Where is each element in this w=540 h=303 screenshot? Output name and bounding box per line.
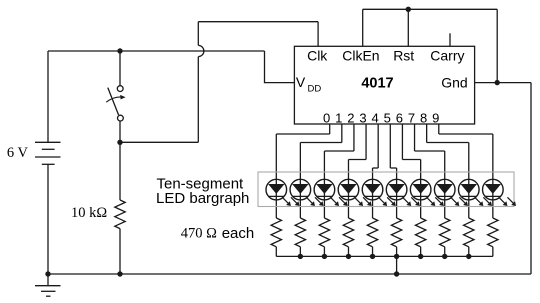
svg-text:4017: 4017: [361, 76, 393, 92]
svg-text:DD: DD: [308, 83, 322, 94]
svg-text:9: 9: [432, 110, 439, 125]
svg-text:each: each: [222, 225, 255, 242]
svg-text:3: 3: [359, 110, 366, 125]
svg-text:V: V: [296, 74, 306, 90]
svg-text:0: 0: [323, 110, 330, 125]
svg-text:4: 4: [371, 110, 378, 125]
svg-text:10 kΩ: 10 kΩ: [71, 205, 107, 221]
svg-text:Carry: Carry: [430, 48, 464, 64]
svg-text:6: 6: [396, 110, 403, 125]
svg-text:6 V: 6 V: [7, 145, 29, 161]
svg-text:Gnd: Gnd: [441, 74, 467, 90]
svg-text:ClkEn: ClkEn: [342, 48, 379, 64]
svg-text:LED bargraph: LED bargraph: [156, 190, 249, 207]
svg-text:Rst: Rst: [393, 48, 414, 64]
svg-text:7: 7: [408, 110, 415, 125]
svg-text:8: 8: [420, 110, 427, 125]
svg-text:470 Ω: 470 Ω: [181, 226, 217, 242]
svg-text:5: 5: [384, 110, 391, 125]
svg-text:1: 1: [335, 110, 342, 125]
svg-text:Clk: Clk: [307, 48, 328, 64]
svg-text:2: 2: [347, 110, 354, 125]
